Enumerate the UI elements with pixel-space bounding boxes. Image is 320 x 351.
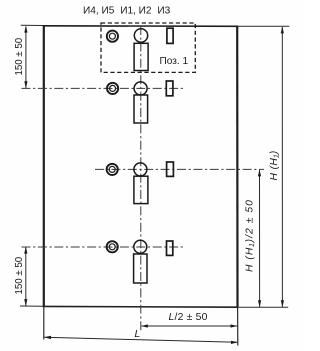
small rect row1 bbox=[167, 28, 173, 43]
dimension L bbox=[45, 337, 238, 342]
rect row1 bbox=[134, 43, 148, 70]
dashed box Поз.1 bbox=[101, 23, 195, 72]
dimension H (H1)/2 ± 50 right inner bbox=[259, 170, 261, 307]
dimension H (H1) right outer bbox=[281, 27, 283, 307]
svg-text:150 ± 50: 150 ± 50 bbox=[14, 37, 25, 75]
rect row4 bbox=[134, 254, 147, 283]
extension line bottom-right bbox=[238, 306, 289, 308]
circle row1 bbox=[134, 29, 147, 42]
svg-text:Поз. 1: Поз. 1 bbox=[160, 56, 189, 67]
svg-text:150 ± 50: 150 ± 50 bbox=[14, 256, 25, 294]
svg-text:H (H₁): H (H₁) bbox=[269, 150, 280, 180]
extension line top-left bbox=[21, 24, 43, 26]
circle row2 bbox=[134, 82, 147, 95]
rect row3 bbox=[134, 176, 148, 203]
ring row4 bbox=[107, 241, 118, 252]
extension panel left edge down bbox=[43, 307, 45, 340]
row2 centerline bbox=[22, 87, 185, 89]
svg-text:L: L bbox=[135, 329, 141, 340]
small rect row3 bbox=[167, 162, 174, 176]
dimension L/2 ± 50 bbox=[142, 325, 238, 327]
vertical centerline bbox=[140, 26, 142, 331]
svg-text:И1, И2: И1, И2 bbox=[120, 5, 152, 16]
dimension 150±50 bottom bbox=[25, 248, 27, 306]
ring row3 bbox=[107, 164, 118, 175]
panel outline bbox=[43, 26, 238, 308]
circle row3 bbox=[134, 163, 147, 176]
extension line bottom-left bbox=[20, 305, 43, 307]
small rect row2 bbox=[166, 81, 173, 96]
ring row2 bbox=[107, 83, 118, 94]
small rect row4 bbox=[167, 241, 173, 255]
extension line top-right bbox=[238, 25, 290, 27]
extension panel right edge down bbox=[237, 307, 239, 346]
row3 centerline bbox=[95, 168, 264, 170]
ring row1 bbox=[107, 31, 118, 42]
row4 centerline bbox=[22, 246, 185, 248]
rect row2 bbox=[134, 95, 148, 123]
svg-text:И3: И3 bbox=[157, 5, 170, 16]
svg-text:L/2 ± 50: L/2 ± 50 bbox=[169, 312, 208, 323]
svg-text:H (H₁)/2 ± 50: H (H₁)/2 ± 50 bbox=[244, 199, 255, 272]
dimension 150±50 top bbox=[25, 27, 27, 88]
svg-text:И4, И5: И4, И5 bbox=[83, 5, 115, 16]
circle row4 bbox=[134, 240, 147, 253]
